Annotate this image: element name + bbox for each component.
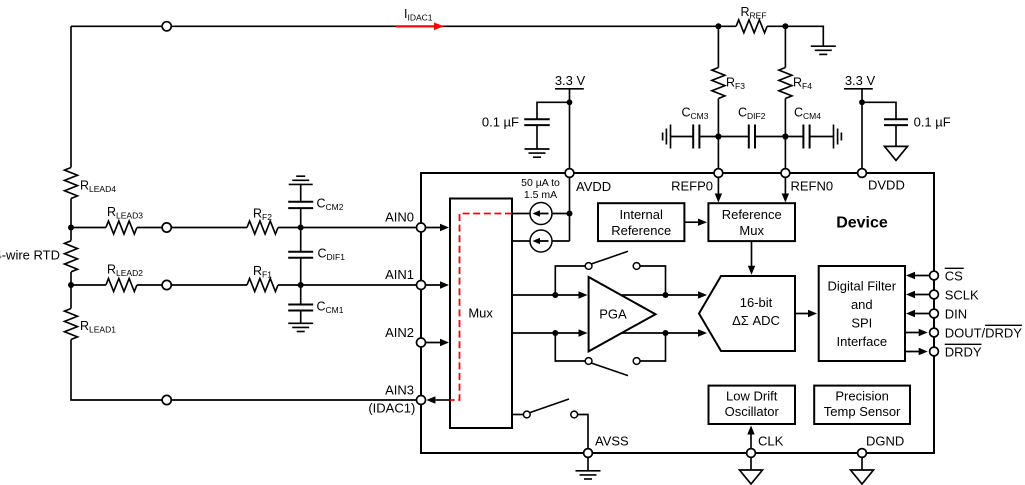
svg-text:DOUT/DRDY: DOUT/DRDY bbox=[945, 326, 1023, 341]
wire cap to ground bbox=[536, 125, 538, 149]
wire cap to triangle ground bbox=[895, 125, 897, 146]
wire RF1 to node bbox=[278, 284, 301, 286]
wire node to CDIF2 bbox=[718, 136, 748, 138]
wire AIN0 to mux bbox=[426, 227, 443, 229]
svg-text:AIN2: AIN2 bbox=[385, 325, 414, 340]
svg-text:RLEAD1: RLEAD1 bbox=[80, 319, 116, 335]
svg-text:0.1 µF: 0.1 µF bbox=[482, 115, 519, 130]
wire gnd to CCM2 bbox=[300, 184, 302, 201]
wire pga out minus bbox=[622, 332, 703, 334]
svg-text:Mux: Mux bbox=[468, 306, 493, 321]
wire SCLK into filter bbox=[909, 294, 930, 296]
node A (RREF left / RF3 top) bbox=[715, 23, 721, 29]
wire left vertical (top) bbox=[70, 26, 72, 167]
wire RF2 to node bbox=[278, 227, 301, 229]
svg-text:SCLK: SCLK bbox=[945, 288, 979, 303]
resistor RF2 bbox=[247, 221, 278, 234]
node (pga out minus) bbox=[663, 330, 669, 336]
resistor RLEAD2 bbox=[106, 279, 137, 292]
svg-text:AVDD: AVDD bbox=[576, 179, 611, 194]
current source IDAC1 bbox=[530, 203, 552, 225]
resistor RF3 bbox=[712, 68, 725, 99]
svg-text:Mux: Mux bbox=[739, 223, 764, 238]
svg-text:CDIF1: CDIF1 bbox=[318, 247, 346, 263]
wire intref to refmux bbox=[684, 221, 699, 223]
wire 3.3V to AVDD pin bbox=[569, 89, 571, 169]
wire RREF left stub bbox=[718, 25, 736, 27]
node (CDIF1/AIN1) bbox=[298, 282, 304, 288]
svg-text:DGND: DGND bbox=[866, 433, 904, 448]
svg-text:Reference: Reference bbox=[722, 207, 782, 222]
svg-text:Precision: Precision bbox=[835, 388, 888, 403]
wire RREF right stub bbox=[767, 25, 785, 27]
svg-text:RREF: RREF bbox=[741, 5, 767, 20]
svg-text:SPI: SPI bbox=[851, 315, 872, 330]
wire RLEAD2 to terminal bbox=[137, 284, 162, 286]
svg-text:Reference: Reference bbox=[611, 223, 671, 238]
idac1 path (red dashed) bbox=[449, 214, 512, 401]
pin AVDD bbox=[565, 169, 574, 178]
svg-text:CS: CS bbox=[945, 269, 963, 284]
switch circle (bypass top right) bbox=[633, 263, 640, 270]
wire terminal to RF2 bbox=[171, 227, 247, 229]
wire DGND to triangle ground bbox=[861, 457, 863, 470]
wire mux to source 1 bbox=[512, 213, 530, 215]
svg-text:50 µA to: 50 µA to bbox=[521, 177, 560, 189]
wire AIN3 from idac path bbox=[434, 399, 450, 401]
svg-text:CLK: CLK bbox=[758, 433, 784, 448]
wire node to CDIF1 bbox=[300, 228, 302, 252]
wire AIN1 to mux bbox=[426, 284, 443, 286]
pin DGND bbox=[858, 449, 867, 458]
svg-text:DRDY: DRDY bbox=[945, 345, 982, 360]
wire RLEAD3 to terminal bbox=[137, 227, 162, 229]
wire CCM1 to gnd bbox=[300, 311, 302, 324]
svg-text:REFN0: REFN0 bbox=[791, 179, 834, 194]
wire adc to filter bbox=[795, 313, 813, 315]
wire REFN0 into device bbox=[784, 177, 786, 196]
wire mux to pga minus bbox=[512, 332, 584, 334]
ground (RREF) bbox=[811, 45, 836, 47]
terminal (top loop) bbox=[162, 22, 171, 31]
svg-text:Internal: Internal bbox=[620, 207, 663, 222]
wire 3.3V to DVDD pin bbox=[861, 89, 863, 169]
ground triangle (CLK) bbox=[740, 470, 763, 484]
wire node B to RF4 bbox=[784, 26, 786, 67]
pin CS bbox=[930, 271, 939, 280]
svg-text:RF1: RF1 bbox=[253, 264, 272, 280]
node 1 (RTD top) bbox=[68, 225, 74, 231]
wire RTD stubs bbox=[70, 228, 72, 241]
svg-text:ΔΣ ADC: ΔΣ ADC bbox=[732, 313, 780, 328]
node (source rail) bbox=[567, 211, 573, 217]
wire CS into filter bbox=[909, 275, 930, 277]
pin DOUT/DRDY bbox=[930, 328, 939, 337]
switch circle (avss right) bbox=[571, 411, 578, 418]
ground triangle (DGND) bbox=[851, 470, 874, 484]
resistor RF1 bbox=[247, 279, 278, 292]
resistor RREF bbox=[736, 20, 767, 33]
adc block 16-bit delta-sigma bbox=[699, 276, 795, 351]
resistor RTD (4-wire RTD) bbox=[65, 241, 78, 272]
wire top IDAC1 loop bbox=[71, 25, 718, 27]
node (CCM2/AIN0) bbox=[298, 225, 304, 231]
ground (AVSS) bbox=[576, 470, 601, 472]
ground (AVDD bypass) bbox=[525, 148, 550, 150]
wire mux to pga plus bbox=[512, 294, 584, 296]
wire CCM2 to node bbox=[300, 208, 302, 227]
svg-text:Device: Device bbox=[836, 215, 888, 232]
ground sideways (CCM4) bbox=[833, 125, 835, 149]
svg-text:0.1 µF: 0.1 µF bbox=[914, 115, 951, 130]
terminal (AIN3 line) bbox=[162, 395, 171, 404]
wire sgnd to CCM3 bbox=[671, 136, 694, 138]
wire RF4 to REFN0 bbox=[784, 99, 786, 169]
capacitor CCM1 bbox=[288, 304, 313, 306]
wire RLEAD4 to node1 bbox=[70, 199, 72, 228]
node B (RREF right / RF4 top) bbox=[782, 23, 788, 29]
pin DVDD bbox=[858, 169, 867, 178]
svg-text:Oscillator: Oscillator bbox=[725, 404, 780, 419]
svg-text:REFP0: REFP0 bbox=[671, 179, 713, 194]
supply bar (DVDD 3.3V) bbox=[844, 88, 873, 90]
wire AVSS to ground bbox=[587, 457, 589, 470]
ground inverted (CCM2) bbox=[289, 183, 313, 185]
digital filter box bbox=[819, 266, 905, 361]
svg-text:Digital Filter: Digital Filter bbox=[827, 278, 896, 293]
svg-text:RLEAD4: RLEAD4 bbox=[80, 179, 116, 195]
svg-text:AVSS: AVSS bbox=[595, 433, 629, 448]
capacitor CDIF2 bbox=[748, 125, 750, 149]
wire node2 to RLEAD1 bbox=[70, 285, 72, 309]
wire bypass top right bbox=[640, 266, 666, 295]
terminal (branch 1) bbox=[162, 223, 171, 232]
wire source 1 to AVDD rail bbox=[552, 213, 570, 215]
wire DRDY out of filter bbox=[905, 351, 923, 353]
wire refmux to adc bbox=[751, 241, 753, 268]
node (AVDD bypass) bbox=[567, 99, 573, 105]
wire CLK to oscillator bbox=[750, 431, 752, 449]
wire AVDD rail bbox=[569, 177, 571, 241]
wire node to bypass cap bbox=[862, 102, 896, 119]
wire node to AIN1 pin bbox=[301, 284, 417, 286]
svg-text:Interface: Interface bbox=[837, 334, 888, 349]
svg-text:3.3 V: 3.3 V bbox=[845, 73, 876, 88]
svg-text:Temp Sensor: Temp Sensor bbox=[824, 404, 901, 419]
switch circle (bypass bottom right) bbox=[633, 358, 640, 365]
reference mux box bbox=[708, 203, 795, 241]
capacitor CCM2 bbox=[288, 201, 313, 203]
svg-text:PGA: PGA bbox=[599, 307, 627, 322]
switch blade (avss) bbox=[530, 399, 569, 413]
switch circle (bypass top left) bbox=[585, 263, 592, 270]
svg-text:RLEAD3: RLEAD3 bbox=[107, 205, 143, 221]
precision temp sensor box bbox=[814, 386, 910, 424]
wire node to bypass cap bbox=[537, 102, 570, 119]
ground triangle (DVDD bypass) bbox=[885, 146, 908, 160]
svg-text:RF3: RF3 bbox=[726, 76, 745, 92]
capacitor 0.1uF (AVDD) bbox=[524, 118, 550, 120]
svg-text:(IDAC1): (IDAC1) bbox=[368, 401, 415, 416]
wire AIN2 to mux bbox=[426, 342, 443, 344]
pin SCLK bbox=[930, 290, 939, 299]
pin DRDY bbox=[930, 347, 939, 356]
wire pga out plus bbox=[622, 294, 703, 296]
wire left bottom to AIN3 bbox=[71, 340, 417, 401]
wire DOUT out of filter bbox=[905, 332, 923, 334]
switch blade (bypass bottom) bbox=[591, 363, 628, 376]
wire bypass bottom right bbox=[640, 333, 666, 361]
pin REFP0 bbox=[714, 169, 723, 178]
node (pga out plus) bbox=[663, 292, 669, 298]
node 2 (RTD bottom) bbox=[68, 282, 74, 288]
node (DVDD bypass) bbox=[859, 99, 865, 105]
current source IDAC2 bbox=[530, 230, 552, 252]
resistor RF4 bbox=[779, 68, 792, 99]
pin AIN1 bbox=[417, 281, 426, 290]
pin AVSS bbox=[584, 449, 593, 458]
svg-text:AIN0: AIN0 bbox=[385, 209, 414, 224]
switch circle (bypass bottom left) bbox=[585, 358, 592, 365]
svg-text:CCM1: CCM1 bbox=[317, 300, 344, 316]
wire REFP0 into device bbox=[717, 177, 719, 196]
svg-text:16-bit: 16-bit bbox=[740, 295, 773, 310]
svg-text:1.5 mA: 1.5 mA bbox=[524, 189, 557, 201]
svg-text:3.3 V: 3.3 V bbox=[555, 73, 586, 88]
pin REFN0 bbox=[781, 169, 790, 178]
ground sideways (CCM3) bbox=[670, 125, 672, 149]
device outline bbox=[421, 173, 934, 453]
node (pga in minus) bbox=[552, 330, 558, 336]
pin AIN0 bbox=[417, 223, 426, 232]
wire CLK to triangle ground bbox=[750, 457, 752, 470]
resistor RLEAD4 bbox=[65, 168, 78, 199]
capacitor CDIF1 bbox=[288, 251, 313, 253]
capacitor CCM4 bbox=[802, 125, 804, 149]
switch blade (bypass top) bbox=[591, 251, 628, 264]
op-amp PGA bbox=[589, 277, 656, 351]
resistor RLEAD3 bbox=[106, 221, 137, 234]
pin AIN3 bbox=[417, 396, 426, 405]
wire bypass bottom left bbox=[555, 333, 585, 361]
wire bypass top left bbox=[555, 266, 585, 295]
svg-text:DVDD: DVDD bbox=[868, 178, 905, 193]
wire node to AIN0 pin bbox=[301, 227, 417, 229]
node (caps row REFP0) bbox=[715, 133, 721, 139]
terminal (branch 2) bbox=[162, 280, 171, 289]
svg-text:Low Drift: Low Drift bbox=[726, 388, 778, 403]
pin DIN bbox=[930, 309, 939, 318]
resistor RLEAD1 bbox=[65, 309, 78, 340]
svg-text:DIN: DIN bbox=[945, 307, 967, 322]
pin CLK bbox=[747, 449, 756, 458]
wire RF3 to REFP0 bbox=[717, 99, 719, 169]
capacitor 0.1uF (DVDD) bbox=[884, 118, 908, 120]
low drift oscillator box bbox=[709, 386, 796, 424]
pin AIN2 bbox=[417, 338, 426, 347]
svg-text:IIDAC1: IIDAC1 bbox=[404, 7, 433, 23]
wire node2 to RLEAD2 bbox=[71, 284, 106, 286]
node (caps row REFN0) bbox=[782, 133, 788, 139]
wire source 2 to AVDD rail bbox=[552, 240, 570, 242]
svg-text:CCM2: CCM2 bbox=[317, 197, 344, 213]
current arrow IDAC1 (red) bbox=[396, 25, 436, 27]
capacitor CCM3 bbox=[692, 125, 694, 149]
svg-text:4-wire RTD: 4-wire RTD bbox=[0, 247, 60, 262]
svg-text:CCM4: CCM4 bbox=[794, 106, 821, 122]
wire terminal to RF1 bbox=[171, 284, 247, 286]
supply bar (AVDD 3.3V) bbox=[555, 88, 584, 90]
wire CDIF2 to node bbox=[755, 136, 785, 138]
internal reference box bbox=[598, 203, 684, 241]
wire node1 to RLEAD3 bbox=[71, 227, 106, 229]
svg-text:RF4: RF4 bbox=[793, 76, 812, 92]
wire node to CCM1 bbox=[300, 285, 302, 305]
wire node to CCM4 bbox=[785, 136, 803, 138]
svg-text:AIN3: AIN3 bbox=[385, 382, 414, 397]
svg-text:AIN1: AIN1 bbox=[385, 267, 414, 282]
svg-text:and: and bbox=[851, 297, 873, 312]
mux box bbox=[450, 199, 512, 429]
svg-text:CDIF2: CDIF2 bbox=[738, 106, 766, 122]
svg-text:CCM3: CCM3 bbox=[682, 106, 709, 122]
wire avss switch to pin bbox=[578, 415, 588, 449]
wire DIN into filter bbox=[909, 313, 930, 315]
wire CDIF1 to node2 bbox=[300, 258, 302, 285]
wire node A to RF3 bbox=[717, 26, 719, 67]
wire CCM4 to sgnd bbox=[810, 136, 834, 138]
wire mux to source 2 bbox=[512, 240, 530, 242]
svg-text:RF2: RF2 bbox=[253, 206, 272, 222]
node (pga in plus) bbox=[552, 292, 558, 298]
wire CCM3 to node bbox=[699, 136, 718, 138]
wire RREF to ground bbox=[785, 26, 823, 46]
ground (CCM1) bbox=[288, 322, 313, 324]
switch circle (avss left) bbox=[523, 411, 530, 418]
wire mux to avss switch bbox=[512, 414, 523, 416]
svg-text:RLEAD2: RLEAD2 bbox=[107, 263, 143, 279]
